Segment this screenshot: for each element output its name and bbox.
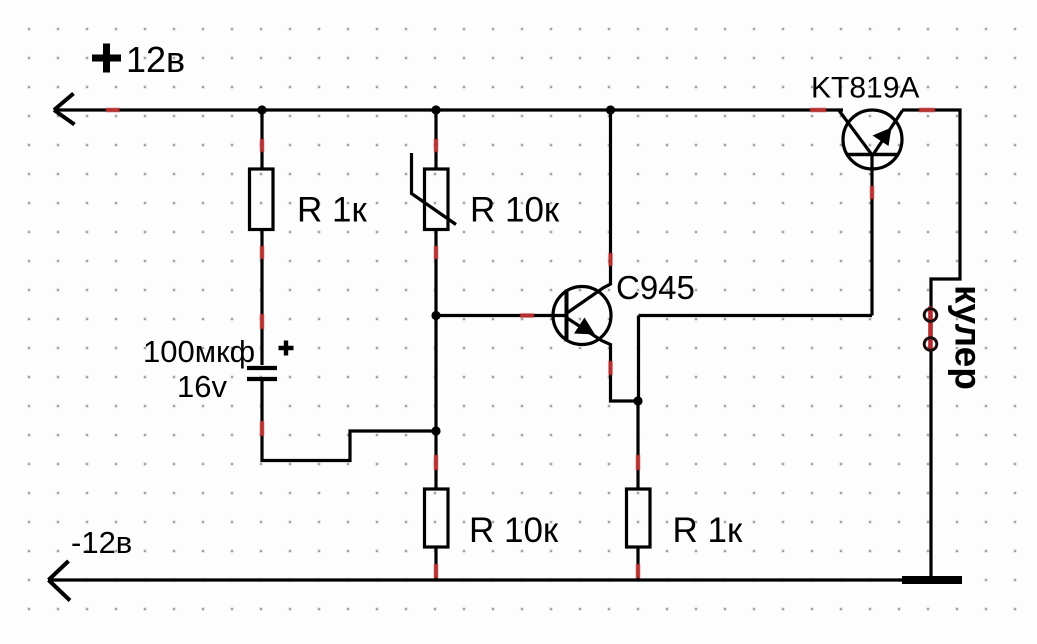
svg-text:R 1к: R 1к: [297, 191, 367, 230]
svg-text:100мкф: 100мкф: [143, 334, 255, 369]
svg-text:12в: 12в: [126, 39, 185, 80]
svg-text:16v: 16v: [177, 369, 227, 404]
svg-text:C945: C945: [616, 269, 695, 306]
svg-text:R 1к: R 1к: [673, 511, 743, 550]
svg-text:кулер: кулер: [948, 285, 989, 390]
svg-text:R 10к: R 10к: [470, 191, 560, 230]
svg-text:-12в: -12в: [71, 525, 132, 560]
svg-text:R 10к: R 10к: [469, 511, 559, 550]
svg-text:KT819A: KT819A: [811, 72, 919, 105]
